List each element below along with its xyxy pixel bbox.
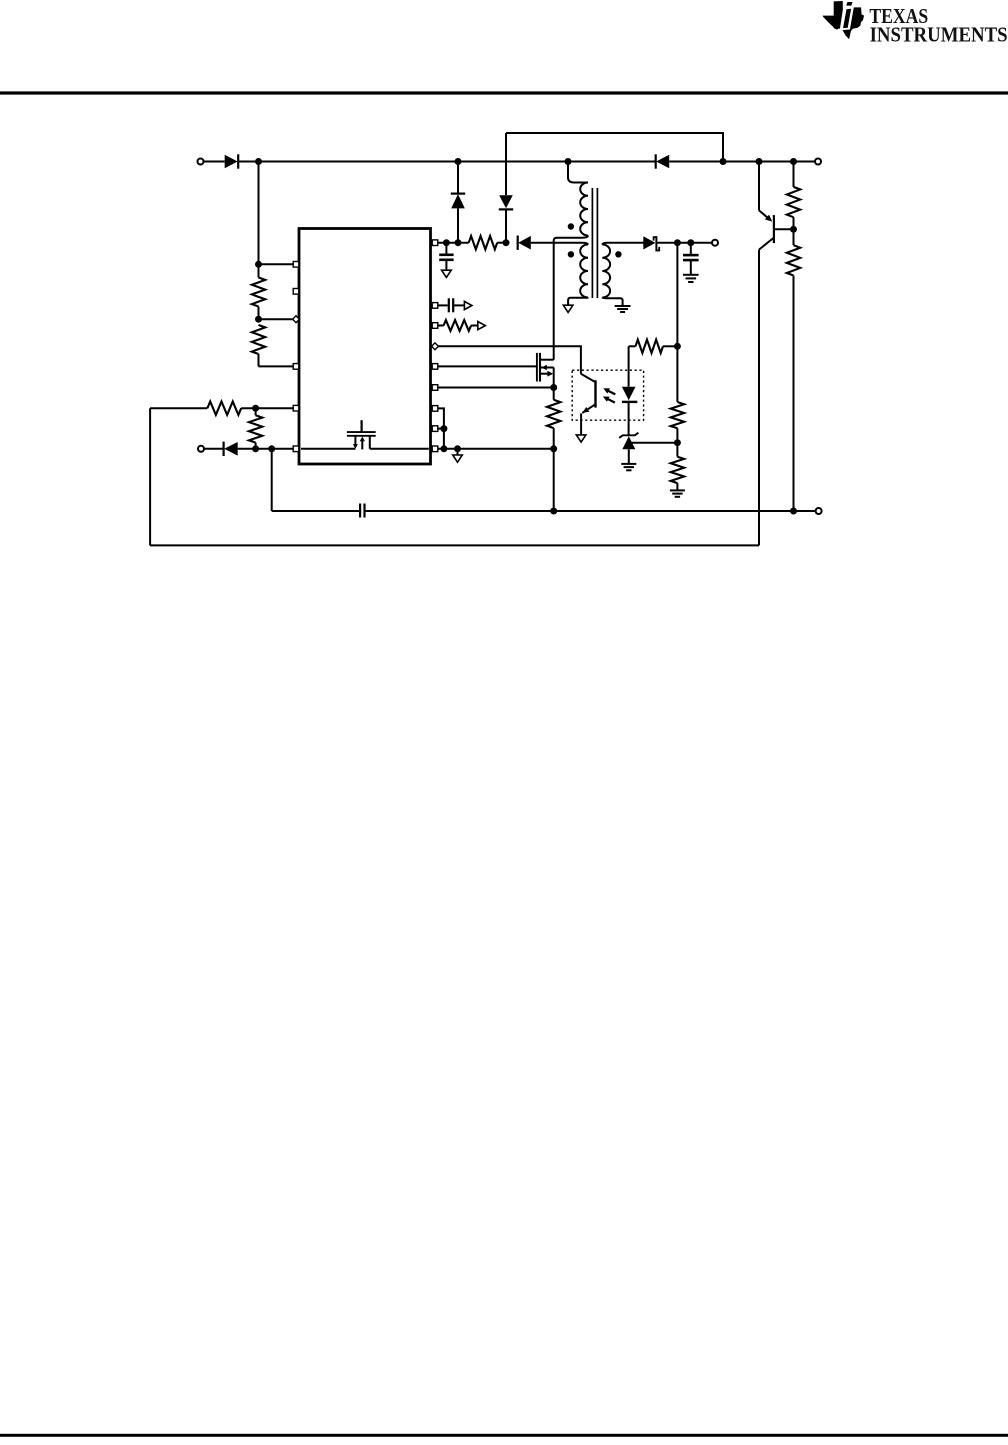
polarity dot secondary xyxy=(615,251,621,257)
wire xyxy=(438,448,554,450)
polarity dot aux xyxy=(568,251,574,257)
wire xyxy=(438,365,537,367)
pin VS upper xyxy=(293,262,299,268)
resistor R4 RLC pin xyxy=(438,320,478,331)
ground arrow VDD cap xyxy=(442,270,452,277)
internal FET bottom rail xyxy=(301,448,429,450)
pin CBC xyxy=(432,303,438,309)
pin NTC xyxy=(432,426,438,432)
ground arrow opto emitter xyxy=(576,435,586,442)
diode D7 return xyxy=(224,442,238,456)
wire xyxy=(438,387,554,389)
wire xyxy=(238,448,294,450)
node emitter tap xyxy=(756,158,763,165)
internal sense FET of U1 xyxy=(347,420,376,449)
wire xyxy=(438,242,469,244)
wire xyxy=(553,449,555,511)
node output cap xyxy=(687,239,694,246)
MOSFET Q2 xyxy=(537,353,554,388)
wire xyxy=(272,510,359,512)
wire xyxy=(259,318,293,320)
wire xyxy=(271,449,273,511)
wire clamp drop xyxy=(457,162,459,194)
wire zener to divider xyxy=(630,442,677,444)
node ycap join xyxy=(268,445,275,452)
earth ground zener xyxy=(621,464,636,470)
wire xyxy=(205,448,224,450)
wire xyxy=(204,161,225,163)
capacitor C4 Y-cap xyxy=(360,504,364,518)
zener diode Z1 xyxy=(619,433,638,464)
wire xyxy=(669,161,814,163)
resistor R11 feedback lower xyxy=(249,408,262,449)
opto phototransistor xyxy=(581,374,596,435)
capacitor C1 VDD xyxy=(439,243,453,271)
resistor R7 current sense xyxy=(547,388,560,449)
wire xyxy=(238,161,258,163)
terminal VOUT- right xyxy=(816,508,822,514)
node VDD clamp xyxy=(455,239,462,246)
wire xyxy=(676,243,678,347)
earth ground output cap xyxy=(683,275,699,282)
terminal VOUT+ right xyxy=(815,159,821,165)
pin VDD xyxy=(432,240,438,246)
wire xyxy=(657,242,711,244)
wire xyxy=(497,242,506,244)
wire emitter xyxy=(758,162,760,211)
pin GND right xyxy=(432,446,438,452)
transformer T1 primary winding xyxy=(580,183,588,236)
node divider mid xyxy=(255,316,262,323)
ground arrow IC xyxy=(453,455,463,462)
resistor R9 divider upper xyxy=(671,346,684,442)
transformer T1 aux winding xyxy=(580,245,588,298)
logo text TEXAS xyxy=(869,5,928,28)
node output div xyxy=(674,239,681,246)
optocoupler U2 dashed box xyxy=(572,370,643,420)
node source xyxy=(550,384,557,391)
opto light arrows xyxy=(603,388,615,402)
resistor R1 line-sense upper xyxy=(252,264,265,319)
wire primary top xyxy=(568,162,588,183)
capacitor C3 output xyxy=(683,243,699,275)
pin RLC xyxy=(432,323,438,329)
wire collector drop xyxy=(758,250,760,546)
wire xyxy=(457,449,459,455)
capacitor C2 CBC pin xyxy=(438,298,464,312)
pin NC xyxy=(293,289,299,295)
node bulk rail A xyxy=(255,158,262,165)
pin IPK xyxy=(432,406,438,412)
node GND b xyxy=(454,445,461,452)
node resistor tap xyxy=(790,158,797,165)
IC U1 controller xyxy=(299,229,431,465)
node divider top xyxy=(255,261,262,268)
node gnd return xyxy=(550,508,557,515)
ground arrow aux xyxy=(563,305,573,312)
node GND a xyxy=(440,445,447,452)
node bypass join xyxy=(720,158,727,165)
pin DRV xyxy=(432,364,438,370)
earth ground divider xyxy=(670,490,685,496)
resistor R5 upper bias xyxy=(787,162,800,230)
transistor Q1 PNP xyxy=(759,210,774,249)
wire secondary top xyxy=(602,243,643,245)
bottom rule xyxy=(0,1434,1008,1437)
wire bypass top xyxy=(506,133,723,162)
wire xyxy=(259,263,294,265)
wire primary bottom to drain xyxy=(554,236,588,360)
wire xyxy=(366,510,815,512)
wire xyxy=(438,428,444,430)
transformer core xyxy=(592,188,597,298)
wire aux bottom xyxy=(568,298,588,306)
wire bypass drop xyxy=(505,133,507,195)
diode D3 clamp xyxy=(451,194,465,209)
node fb bottom xyxy=(252,445,259,452)
node base join xyxy=(790,226,797,233)
diode D2 rail xyxy=(656,154,670,168)
wire xyxy=(241,407,293,409)
wire secondary bottom xyxy=(602,298,622,307)
diode D1 input xyxy=(225,154,239,168)
resistor R3 VDD feed xyxy=(469,236,498,249)
off-page arrow CBC xyxy=(464,301,472,309)
top rule xyxy=(0,91,1008,94)
wire base xyxy=(775,228,794,230)
node bias return xyxy=(790,508,797,515)
node clamp tap xyxy=(455,158,462,165)
wire CTRL to opto xyxy=(438,346,581,374)
diode D6 output schottky xyxy=(643,236,659,251)
resistor R8 opto series xyxy=(629,340,678,353)
polarity dot primary xyxy=(568,223,574,229)
wire top rail xyxy=(259,161,656,163)
pin CS xyxy=(432,385,438,391)
pin FB4 xyxy=(293,364,299,370)
node NTC join xyxy=(440,425,447,432)
wire xyxy=(258,162,260,265)
logo text INSTRUMENTS xyxy=(870,23,1008,46)
diode D5 VDD xyxy=(518,236,531,250)
opto LED xyxy=(622,346,637,435)
node fb mid xyxy=(252,405,259,412)
off-page arrow RLC xyxy=(478,322,486,330)
wire xyxy=(457,208,459,242)
wire xyxy=(505,209,507,242)
resistor R12 feedback xyxy=(150,402,241,415)
node divider mid right xyxy=(674,439,681,446)
terminal VOUT aux xyxy=(712,240,718,246)
node primary tap xyxy=(565,158,572,165)
pin CTRL xyxy=(432,343,439,350)
terminal VIN- xyxy=(198,446,204,452)
resistor R6 lower bias xyxy=(787,229,800,511)
wire aux top xyxy=(531,243,588,245)
earth ground secondary xyxy=(615,306,631,312)
wire feedback bottom xyxy=(150,544,759,546)
pin VS lower xyxy=(293,316,300,323)
wire xyxy=(438,408,444,448)
diode D4 bypass xyxy=(499,195,513,209)
svg-text:INSTRUMENTS: INSTRUMENTS xyxy=(870,23,1008,46)
pin GND left xyxy=(293,446,299,452)
wire feedback left drop xyxy=(149,408,151,545)
pin FB xyxy=(293,405,299,411)
node snubber join xyxy=(503,239,510,246)
Texas Instruments logo bug xyxy=(823,1,864,39)
resistor R10 divider lower xyxy=(671,443,684,491)
node divider top right xyxy=(674,343,681,350)
node VDD cap xyxy=(443,239,450,246)
resistor R2 line-sense lower xyxy=(252,325,293,366)
node sense gnd xyxy=(550,445,557,452)
transformer T1 secondary winding xyxy=(602,245,610,298)
terminal VIN+ xyxy=(198,159,204,165)
